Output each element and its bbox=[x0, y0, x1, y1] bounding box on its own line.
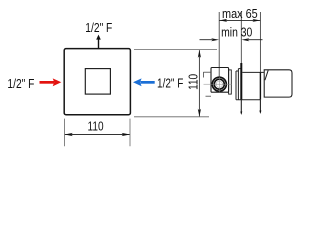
leader arrowheads bbox=[240, 111, 261, 116]
bottom dimension line 110 bbox=[65, 134, 130, 136]
red inlet arrow (right-pointing) bbox=[40, 78, 62, 86]
min 30 dimension tails bbox=[200, 39, 263, 41]
outer square body bbox=[64, 49, 130, 115]
port circles bbox=[212, 77, 226, 91]
extension lines for vertical dimension 110 bbox=[134, 50, 217, 117]
sleeve top edge bbox=[242, 71, 264, 73]
vertical dimension arrowheads bbox=[198, 50, 201, 117]
svg-text:1/2" F: 1/2" F bbox=[7, 77, 34, 91]
max 65 arrowheads bbox=[219, 19, 260, 22]
min 30 arrowheads bbox=[211, 38, 249, 41]
leader lines below valve bbox=[241, 100, 260, 114]
inner square bbox=[85, 69, 110, 95]
max 65 dimension line bbox=[219, 19, 260, 21]
svg-text:1/2" F: 1/2" F bbox=[85, 21, 112, 35]
vertical dimension line 110 bbox=[198, 50, 200, 116]
cartridge ring bbox=[229, 70, 232, 94]
bottom dimension arrowheads bbox=[65, 133, 130, 136]
extension lines for bottom dimension 110 bbox=[65, 119, 131, 147]
inlet stub left bbox=[203, 72, 211, 96]
svg-text:max 65: max 65 bbox=[222, 6, 258, 21]
vertical centerline of port bbox=[218, 77, 220, 92]
flange / sleeve bottom edge bbox=[236, 99, 260, 101]
svg-text:110: 110 bbox=[186, 74, 201, 90]
valve body bbox=[211, 68, 229, 93]
handle lever notch bbox=[265, 70, 268, 80]
sleeve right edge bbox=[259, 72, 261, 99]
blue inlet arrow (left-pointing) bbox=[133, 78, 155, 86]
svg-text:110: 110 bbox=[88, 119, 104, 134]
handle knob bbox=[264, 70, 292, 97]
svg-text:1/2" F: 1/2" F bbox=[157, 76, 183, 91]
reference/extension verticals bbox=[219, 12, 260, 77]
svg-text:min 30: min 30 bbox=[221, 25, 253, 39]
escutcheon flange bbox=[240, 63, 242, 100]
top outlet arrow (black, up) bbox=[96, 35, 101, 49]
horizontal centerline of port bbox=[204, 83, 232, 85]
